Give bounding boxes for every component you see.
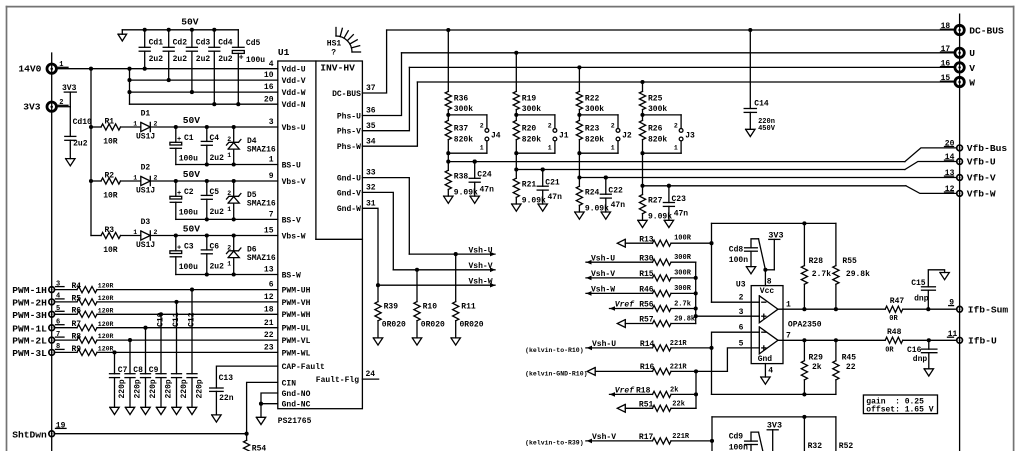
svg-text:R29: R29: [809, 353, 824, 362]
svg-text:0R020: 0R020: [421, 321, 445, 330]
resistor R18 2k: [610, 387, 697, 398]
svg-text:C22: C22: [608, 187, 623, 196]
junction dots row R3: [174, 233, 236, 237]
svg-text:100n: 100n: [729, 443, 748, 451]
shunt resistor R39 0R020: [375, 285, 406, 338]
svg-text:1: 1: [133, 121, 137, 128]
op-amp U3A triangle: [759, 296, 778, 323]
capacitor C3 100u polarized: [170, 236, 198, 275]
capacitor C7 220p: [110, 352, 128, 407]
resistor R46 300R: [586, 285, 696, 296]
U3 pin number 3: [739, 308, 744, 317]
svg-text:14: 14: [945, 153, 955, 162]
wire ShtDwn row: [54, 432, 248, 436]
svg-text:1: 1: [227, 261, 231, 268]
junction dot jumper rejoin J4: [446, 151, 450, 155]
zener diode D6 SMAZ16: [227, 236, 276, 275]
wire 14V0 to Vdd-U pin 4: [57, 68, 278, 70]
refdes U1: [278, 47, 290, 58]
ground under C23: [664, 220, 673, 227]
connector pin 15 W: [941, 74, 965, 87]
svg-text:47n: 47n: [611, 201, 626, 210]
wire pin 26 CIN down: [247, 382, 278, 433]
resistor R56 2.7k: [610, 300, 696, 311]
net label ShtDwn: [12, 429, 47, 440]
wire pin 37 to DC-BUS rail: [362, 30, 386, 93]
resistor R15 300R: [586, 270, 696, 281]
ground under R24: [575, 212, 584, 219]
shunt resistor R10 0R020: [414, 270, 445, 338]
svg-text:C11: C11: [172, 312, 181, 327]
svg-text:Vsh-U: Vsh-U: [592, 340, 616, 349]
svg-text:300k: 300k: [522, 105, 541, 114]
svg-text:100u: 100u: [179, 155, 198, 164]
svg-text:R38: R38: [454, 172, 469, 181]
svg-text:R54: R54: [252, 444, 267, 451]
svg-text:5: 5: [739, 339, 744, 348]
wire feedback rail A: [712, 221, 836, 225]
svg-text:US1J: US1J: [136, 133, 155, 142]
svg-text:50V: 50V: [183, 115, 201, 126]
ground at C15: [940, 273, 949, 280]
svg-text:300k: 300k: [454, 105, 473, 114]
ground under R11: [451, 338, 460, 345]
svg-text:18: 18: [264, 305, 274, 314]
svg-text:INV-HV: INV-HV: [320, 63, 355, 74]
svg-text:13: 13: [945, 169, 955, 178]
svg-text:Gnd-NC: Gnd-NC: [282, 401, 311, 410]
svg-text:Vbs-W: Vbs-W: [282, 232, 306, 241]
resistor R37 820k: [445, 120, 473, 161]
svg-text:2: 2: [227, 190, 231, 197]
left connector bus line: [51, 53, 53, 451]
svg-text:220p: 220p: [195, 379, 204, 398]
svg-text:2: 2: [674, 122, 678, 129]
U1 pin name Gnd-U: [337, 169, 376, 184]
resistor R55 29.8k: [833, 223, 870, 309]
svg-text:31: 31: [366, 199, 376, 208]
svg-text:+: +: [177, 136, 181, 144]
capacitor C5 2u2: [201, 181, 224, 219]
svg-text:PWM-1H: PWM-1H: [12, 285, 47, 296]
svg-text:ShtDwn: ShtDwn: [12, 429, 47, 440]
svg-text:6: 6: [269, 281, 274, 290]
jumper J2: [579, 115, 632, 153]
svg-text:22: 22: [846, 363, 856, 372]
svg-text:24: 24: [366, 370, 376, 379]
net label PWM-1L: [12, 323, 47, 334]
svg-text:DC-BUS: DC-BUS: [332, 90, 361, 99]
svg-text:PWM-WH: PWM-WH: [282, 311, 311, 320]
capacitor C10 220p: [156, 312, 173, 407]
power net label 50V row R3: [183, 224, 201, 235]
ground under C9: [141, 407, 150, 414]
svg-text:3: 3: [739, 308, 744, 317]
svg-text:3V3: 3V3: [767, 421, 782, 431]
svg-text:R25: R25: [648, 94, 663, 103]
svg-text:Vfb-Bus: Vfb-Bus: [967, 143, 1008, 154]
svg-text:120R: 120R: [98, 346, 114, 353]
wire Vfb-W: [643, 184, 956, 194]
svg-text:C1: C1: [184, 134, 194, 143]
net label Vsh-U arrow: [469, 247, 493, 256]
U3 pin 4 ground: [761, 364, 770, 385]
svg-text:C23: C23: [672, 195, 687, 204]
svg-text:offset: 1.65 V: offset: 1.65 V: [866, 405, 933, 414]
svg-text:Gnd-U: Gnd-U: [337, 175, 361, 184]
svg-text:+: +: [177, 190, 181, 198]
svg-text:50V: 50V: [183, 224, 201, 235]
capacitor C1 100u polarized: [170, 127, 198, 165]
junction dot fb tap R25: [640, 184, 644, 188]
power flag 3V3 at U4: [767, 421, 782, 451]
svg-text:13: 13: [264, 266, 274, 275]
svg-text:3V3: 3V3: [62, 84, 77, 93]
U1 pin name Phs-U: [337, 107, 376, 122]
svg-text:R47: R47: [890, 297, 905, 306]
svg-text:R14: R14: [640, 340, 655, 349]
wire pin 35 to V rail: [362, 67, 409, 130]
resistor R14 221R: [586, 340, 712, 351]
svg-text:BS-W: BS-W: [282, 271, 301, 280]
svg-text:1: 1: [133, 229, 137, 236]
junction dot R39 tap: [376, 283, 380, 287]
IC U3 body: [751, 286, 783, 364]
svg-text:PWM-3H: PWM-3H: [12, 310, 47, 321]
capacitor Cd10: [65, 107, 92, 159]
svg-text:R9: R9: [72, 345, 82, 354]
svg-text:R16: R16: [640, 363, 655, 372]
wire to Vdd-W pin 16: [130, 90, 278, 94]
svg-text:10R: 10R: [103, 192, 118, 201]
svg-text:W: W: [969, 77, 975, 88]
wire pin 3 entry: [696, 315, 760, 317]
svg-text:300k: 300k: [648, 105, 667, 114]
wire op-amp B output: [778, 338, 885, 342]
svg-text:Ifb-Sum: Ifb-Sum: [968, 304, 1009, 315]
U1 pin name Gnd-NO: [282, 390, 311, 399]
svg-text:SMAZ16: SMAZ16: [247, 199, 276, 208]
svg-text:2: 2: [739, 294, 744, 303]
svg-text:R5: R5: [72, 294, 82, 303]
svg-text:D1: D1: [141, 110, 151, 119]
svg-text:SMAZ16: SMAZ16: [247, 145, 276, 154]
U1 pin name Phs-V: [337, 122, 376, 137]
capacitor C2 100u polarized: [170, 181, 198, 219]
svg-text:HS1: HS1: [327, 40, 342, 49]
U1 pin name PWM-WH: [282, 311, 311, 320]
U1 pin name CIN: [282, 379, 297, 388]
svg-text:V: V: [969, 63, 975, 74]
diode D2 US1J: [133, 164, 157, 196]
U1 pin name Vbs-V: [282, 178, 306, 187]
gain/offset note box: [863, 395, 937, 414]
svg-text:R36: R36: [454, 94, 469, 103]
net label V right: [969, 63, 975, 74]
wire Vsh-V with arrow: [393, 268, 495, 273]
svg-text:1: 1: [269, 156, 274, 165]
ground under C10: [156, 407, 165, 414]
svg-text:R18: R18: [636, 387, 651, 396]
ground under R39: [373, 338, 382, 345]
U3 pin number 8: [767, 277, 772, 286]
svg-text:PWM-VH: PWM-VH: [282, 299, 311, 308]
wire node D vertical: [710, 417, 714, 451]
svg-text:C14: C14: [754, 99, 769, 108]
svg-text:C12: C12: [188, 312, 197, 327]
svg-text:R48: R48: [887, 328, 902, 337]
svg-text:U1: U1: [278, 47, 290, 58]
svg-text:120R: 120R: [98, 307, 114, 314]
junction dot R19/R20: [514, 113, 518, 117]
resistor R29 2k: [801, 340, 823, 394]
svg-text:Gnd-NO: Gnd-NO: [282, 390, 311, 399]
svg-text:3: 3: [269, 118, 274, 127]
svg-text:Fault-Flg: Fault-Flg: [316, 376, 359, 385]
svg-text:C10: C10: [157, 312, 166, 327]
svg-text:R24: R24: [585, 188, 600, 197]
svg-text:2u2: 2u2: [196, 55, 211, 64]
jumper J3: [643, 115, 696, 153]
wire to Vdd-V pin 10: [130, 78, 278, 82]
power flag 3V3 left: [62, 84, 77, 107]
svg-text:PWM-WL: PWM-WL: [282, 349, 311, 358]
svg-text:U3: U3: [736, 281, 746, 290]
svg-text:300R: 300R: [674, 285, 692, 293]
junction dot R25/R26: [640, 113, 644, 117]
svg-text:J3: J3: [685, 131, 695, 140]
pin number 15: [264, 227, 274, 236]
svg-text:Vsh-V: Vsh-V: [591, 270, 615, 279]
jumper J1: [516, 115, 569, 153]
pin number 1: [269, 156, 274, 165]
U3 Vcc label: [760, 287, 775, 296]
svg-text:Cd8: Cd8: [729, 245, 744, 254]
svg-text:R52: R52: [839, 442, 854, 451]
junction dot jumper rejoin J3: [640, 151, 644, 155]
svg-text:4: 4: [768, 367, 773, 376]
U3 pin number 7: [786, 332, 791, 341]
capacitor Cd3 2u2: [186, 30, 210, 92]
svg-text:0R: 0R: [889, 315, 898, 323]
net label Vfb-V: [967, 173, 996, 184]
svg-text:0R020: 0R020: [382, 321, 406, 330]
wire D3 to pin 15: [150, 235, 277, 237]
svg-text:7: 7: [786, 332, 791, 341]
svg-text:Gnd: Gnd: [758, 355, 773, 364]
capacitor C4 2u2: [201, 127, 224, 165]
svg-text:R32: R32: [808, 442, 823, 451]
capacitor C9 220p: [141, 328, 159, 408]
svg-text:2k: 2k: [812, 363, 822, 372]
svg-text:3V3: 3V3: [768, 230, 783, 240]
svg-text:16: 16: [264, 83, 274, 92]
junction dots ladder: [127, 78, 131, 94]
svg-text:10R: 10R: [103, 138, 118, 147]
U3 pin number 4: [768, 367, 773, 376]
svg-text:R51: R51: [639, 401, 654, 410]
wire R-column vertical x91: [90, 69, 92, 236]
svg-text:1: 1: [786, 300, 791, 309]
power net label 50V row R2: [183, 169, 201, 180]
svg-text:C21: C21: [545, 179, 560, 188]
U1 pin name BS-U: [282, 161, 301, 170]
svg-text:dnp: dnp: [914, 294, 929, 303]
svg-text:2u2: 2u2: [210, 208, 225, 217]
resistor R45 22: [833, 340, 856, 394]
diode D1 US1J: [133, 110, 157, 142]
net label kelvin-to-R10: [525, 347, 584, 354]
svg-text:R27: R27: [648, 197, 663, 206]
svg-text:Gnd-V: Gnd-V: [337, 189, 361, 198]
resistor R9 120R: [72, 345, 114, 356]
ground under C21: [538, 204, 547, 211]
svg-text:C5: C5: [210, 188, 220, 197]
svg-text:2: 2: [227, 245, 231, 252]
net label kelvin-to-R39: [525, 439, 584, 446]
pin number 12: [264, 293, 274, 302]
svg-text:D3: D3: [141, 218, 151, 227]
wire pin 2 entry: [712, 301, 760, 303]
svg-text:Vfb-V: Vfb-V: [967, 173, 996, 184]
svg-text:R46: R46: [639, 286, 654, 295]
svg-text:1: 1: [227, 152, 231, 159]
svg-text:221R: 221R: [670, 340, 688, 348]
wire pin 25 CAP-Fault to C13: [216, 366, 277, 388]
wire BS rail to pin 7: [176, 217, 278, 221]
svg-text:C16: C16: [907, 346, 922, 355]
resistor R1 10R: [91, 117, 141, 146]
wire node C vertical: [694, 371, 698, 408]
capacitor C12 220p: [187, 290, 204, 408]
resistor R47 0R: [885, 297, 904, 323]
capacitor Cd5 100u polarized: [232, 30, 265, 104]
svg-text:R30: R30: [639, 254, 654, 263]
svg-text:Cd9: Cd9: [729, 433, 744, 442]
junction dot 14V0 at x91: [89, 67, 93, 71]
svg-text:37: 37: [366, 84, 376, 93]
svg-text:R57: R57: [639, 316, 654, 325]
svg-text:Vdd-V: Vdd-V: [282, 77, 306, 86]
capacitor Cd1 2u2: [139, 30, 163, 69]
svg-text:100n: 100n: [729, 256, 748, 265]
resistor R54: [244, 434, 267, 451]
pin number 18: [264, 305, 274, 314]
svg-text:22n: 22n: [219, 394, 234, 403]
U1 pin name BS-V: [282, 216, 301, 225]
svg-text:C15: C15: [911, 279, 926, 288]
IC title INV-HV: [320, 63, 355, 74]
svg-text:C6: C6: [210, 243, 220, 252]
svg-text:Vref: Vref: [615, 301, 635, 310]
net label PWM-2L: [12, 336, 47, 347]
ground under C22: [601, 212, 610, 219]
resistor R16 221R: [587, 363, 727, 375]
resistor R23 820k: [576, 120, 604, 177]
svg-text:0R020: 0R020: [460, 321, 484, 330]
svg-text:PWM-2H: PWM-2H: [12, 298, 47, 309]
svg-text:+: +: [177, 245, 181, 253]
wire pin 36 to U rail: [362, 53, 401, 116]
svg-text:50V: 50V: [183, 169, 201, 180]
connector pin 3 PWM-1H: [49, 280, 64, 292]
svg-text:J2: J2: [622, 131, 632, 140]
svg-text:220p: 220p: [118, 379, 127, 398]
svg-text:100u: 100u: [179, 263, 198, 272]
svg-text:12: 12: [945, 185, 955, 194]
svg-text:450V: 450V: [758, 125, 776, 133]
junction dot C11 tap: [174, 300, 178, 304]
capacitor C6 2u2: [201, 236, 224, 275]
net label U right: [969, 48, 975, 59]
svg-text:100u: 100u: [246, 56, 265, 65]
U3 pin number 5: [739, 339, 744, 348]
svg-text:1: 1: [548, 145, 552, 152]
svg-text:1: 1: [611, 145, 615, 152]
connector pin 5 PWM-3H: [49, 305, 64, 317]
net label PWM-3L: [12, 348, 47, 359]
resistor R3 10R: [91, 226, 141, 255]
ground under R10: [412, 338, 421, 345]
pin number 7: [269, 211, 274, 220]
wire Vsh-U with arrow: [409, 252, 495, 257]
pin number 21: [264, 319, 274, 328]
svg-text:SMAZ16: SMAZ16: [247, 254, 276, 263]
net label Ifb-U: [968, 336, 997, 347]
svg-text:R28: R28: [809, 257, 824, 266]
svg-text:221R: 221R: [672, 433, 690, 441]
wire R48 to Ifb-U: [903, 338, 956, 342]
svg-text:300R: 300R: [674, 270, 692, 278]
wire BS rail to pin 13: [176, 272, 278, 276]
wire W top: [417, 80, 955, 84]
connector pin 13 Vfb-V: [945, 169, 963, 180]
junction dot Cd1 tap: [143, 67, 147, 71]
capacitor C22 47n: [600, 175, 625, 212]
resistor R24 9.09k: [576, 178, 609, 214]
connector pin 18 DC-BUS: [941, 22, 965, 34]
svg-text:1: 1: [674, 145, 678, 152]
pin number 13: [264, 266, 274, 275]
capacitor Cd8 100n: [729, 239, 766, 270]
svg-text:6: 6: [739, 324, 744, 333]
U1 pin name PWM-WL: [282, 349, 311, 358]
wire to Vdd-N pin 20: [130, 102, 278, 106]
U3 Gnd label: [758, 355, 773, 364]
svg-text:120R: 120R: [98, 333, 114, 340]
connector pin 20 Vfb-Bus: [945, 140, 963, 151]
resistor R2 10R: [91, 171, 141, 200]
svg-text:100u: 100u: [179, 209, 198, 218]
U3 pin 8 Vcc wire: [763, 268, 774, 286]
svg-text:R56: R56: [639, 301, 654, 310]
svg-text:Vfb-U: Vfb-U: [967, 157, 996, 168]
wire PWM-2H row: [54, 301, 277, 303]
op-amp U3B triangle: [759, 327, 778, 354]
connector pin 7 PWM-2L: [49, 331, 64, 343]
svg-text:Vsh-W: Vsh-W: [469, 278, 493, 287]
svg-text:Gnd-W: Gnd-W: [337, 205, 361, 214]
ground under C12: [187, 407, 196, 414]
connector pin 8 PWM-3L: [49, 343, 64, 355]
svg-text:U: U: [969, 48, 975, 59]
net label PWM-1H: [12, 285, 47, 296]
U1 pin 24 stub: [362, 378, 378, 380]
svg-text:R8: R8: [72, 333, 82, 342]
wire PWM-1H row: [54, 289, 277, 291]
svg-text:35: 35: [366, 122, 376, 131]
resistor R5 120R: [72, 294, 114, 305]
